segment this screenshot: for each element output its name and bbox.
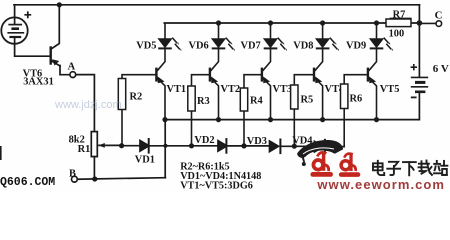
LED VD6 emission arrows	[226, 38, 235, 51]
cell plates inside circle	[7, 25, 24, 37]
node junction emitter rail at VT3	[268, 117, 273, 122]
wire VD8 anode lead	[322, 23, 324, 39]
wire to terminal C	[419, 22, 436, 24]
svg-text:R4: R4	[250, 96, 263, 107]
logo black beret swoosh	[297, 140, 343, 166]
wire node A to potentiometer	[76, 75, 95, 132]
svg-text:R3: R3	[197, 96, 210, 107]
svg-text:www.jdzj.com: www.jdzj.com	[54, 99, 122, 111]
wire mic top lead	[14, 5, 16, 24]
logo text 电子下载站 (drawn strokes)	[373, 161, 447, 176]
scan artifact left edge	[0, 146, 2, 160]
wire VT2 emitter diagonal	[211, 78, 219, 119]
wire VD7 anode lead	[270, 23, 272, 39]
svg-text:R2: R2	[130, 92, 143, 103]
node junction R2 bottom	[119, 143, 124, 148]
svg-text:3AX31: 3AX31	[23, 77, 54, 88]
svg-text:R5: R5	[301, 95, 314, 106]
LED VD9 emission arrows	[384, 38, 393, 51]
LED VD5 emission arrows	[172, 38, 181, 51]
wire mic bottom lead to VT6 base	[15, 37, 50, 56]
node junction emitter rail at VT5	[374, 117, 379, 122]
svg-text:R7: R7	[393, 9, 406, 20]
battery plus sign	[411, 64, 417, 70]
node junction R7 output	[417, 20, 423, 26]
LED VD6	[212, 39, 226, 49]
svg-text:VD3: VD3	[247, 136, 267, 147]
node junction emitter rail at VT4	[320, 117, 325, 122]
wire R6 top lead to VT5 base	[344, 75, 368, 84]
LED VD7	[264, 39, 278, 49]
battery 6V plates	[411, 77, 428, 91]
wire R4 top lead to VT3 base	[244, 75, 262, 88]
wire top rail	[14, 4, 419, 6]
transistor VT6 base bar	[50, 48, 52, 64]
wire second rail (LED anode rail)	[164, 22, 419, 24]
logo beret white slit	[303, 148, 334, 154]
wire VT5 collector	[369, 49, 377, 71]
node junction emitter rail at VT2	[216, 117, 221, 122]
wire VT5 emitter diagonal	[369, 78, 377, 119]
wire VT6 emitter to node A	[60, 66, 70, 75]
svg-text:VT1~VT5:3DG6: VT1~VT5:3DG6	[180, 180, 253, 191]
svg-text:VT1: VT1	[167, 84, 187, 95]
node junction second rail at VD9	[374, 20, 379, 25]
transistor VT3 base bar	[261, 68, 263, 82]
resistor R7	[386, 19, 411, 27]
label R7 underline	[390, 17, 412, 19]
diode VD4	[315, 140, 325, 154]
wire R2 top lead to VT1 base	[122, 75, 156, 79]
svg-text:VT2: VT2	[221, 84, 241, 95]
transistor VT1 base bar	[155, 68, 157, 82]
svg-text:B: B	[69, 169, 76, 180]
wire VT4 emitter diagonal	[315, 78, 323, 119]
wire R5 top lead to VT4 base	[294, 75, 314, 85]
LED VD8 emission arrows	[330, 38, 339, 51]
svg-text:www.eeworm.com: www.eeworm.com	[316, 177, 445, 191]
node B terminal circle	[72, 176, 78, 182]
node junction R5 bottom	[292, 144, 297, 149]
node junction potentiometer bottom	[92, 176, 97, 181]
transistor VT2 base bar	[209, 68, 211, 82]
node junction top rail / VT6 collector	[57, 2, 62, 7]
wire VT2 collector	[211, 49, 219, 71]
svg-text:VD2: VD2	[194, 135, 214, 146]
diode VD2	[218, 139, 227, 153]
wire emitter-rail to diode-line to bottom rail link	[164, 120, 166, 178]
transistor VT5 emitter arrow	[369, 76, 376, 83]
node junction second rail at VD8	[320, 20, 325, 25]
resistor R2	[118, 79, 125, 110]
LED VD8	[316, 39, 330, 49]
svg-text:R6: R6	[350, 94, 363, 105]
wire VT6 collector	[52, 5, 60, 49]
logo red bug 2	[341, 153, 358, 174]
svg-text:VD5: VD5	[136, 41, 156, 52]
svg-text:Q606.COM: Q606.COM	[0, 176, 55, 189]
transistor VT5 base bar	[367, 68, 369, 82]
potentiometer R1 body	[91, 132, 97, 157]
wire diode chain line	[120, 145, 344, 148]
node junction emitter rail at VT1	[162, 117, 167, 122]
wire potentiometer bottom	[93, 157, 95, 180]
transistor VT2 emitter arrow	[211, 76, 218, 83]
wire R3 top lead to VT2 base	[192, 75, 210, 86]
LED VD5	[158, 39, 172, 49]
resistor R5	[291, 85, 298, 109]
transistor VT4 base bar	[313, 68, 315, 82]
wire VT1 collector	[157, 49, 165, 71]
wire R6 bottom lead	[343, 109, 345, 147]
transistor VT6 emitter arrow (PNP)	[52, 59, 59, 65]
transistor VT1 emitter arrow	[158, 76, 165, 83]
node junction second rail at VD6	[216, 20, 221, 25]
wire VD5 anode lead	[164, 23, 166, 39]
svg-text:VD8: VD8	[293, 41, 313, 52]
wire bottom rail	[77, 178, 165, 180]
node junction R4 bottom	[241, 143, 246, 148]
svg-text:6 V: 6 V	[433, 63, 449, 75]
wire R5 bottom lead	[293, 109, 295, 146]
mic/cell G symbol circle	[1, 17, 27, 43]
svg-text:A: A	[68, 61, 76, 72]
svg-text:VD7: VD7	[241, 41, 261, 52]
wire R3 bottom lead	[191, 111, 193, 146]
wire VT3 collector	[263, 49, 271, 71]
resistor R6	[341, 84, 348, 109]
LED VD7 emission arrows	[278, 38, 287, 51]
svg-text:VT3: VT3	[273, 84, 293, 95]
diode VD1	[140, 139, 149, 153]
transistor VT3 emitter arrow	[263, 76, 270, 83]
svg-text:VD9: VD9	[346, 41, 366, 52]
wire right power column	[418, 5, 420, 77]
svg-text:C: C	[435, 10, 443, 22]
wire VT4 collector	[315, 49, 323, 71]
resistor R3	[188, 86, 195, 111]
wire VT3 emitter diagonal	[263, 78, 271, 119]
node A terminal circle	[70, 72, 76, 78]
svg-text:VT5: VT5	[380, 84, 400, 95]
wire VT1 emitter diagonal	[157, 78, 165, 119]
node junction diode line / B link	[164, 144, 168, 148]
svg-text:VD6: VD6	[189, 41, 209, 52]
battery minus sign	[411, 96, 417, 98]
plus sign of cell	[24, 11, 31, 18]
terminal C circle	[436, 21, 442, 27]
wire battery negative to emitter rail	[165, 92, 419, 120]
wire VD6 anode lead	[218, 23, 220, 39]
transistor VT4 emitter arrow	[315, 76, 322, 83]
logo red bug 1	[313, 152, 331, 174]
diode VD3	[270, 140, 281, 154]
svg-text:VD1: VD1	[135, 154, 155, 165]
node junction R3 bottom	[189, 143, 194, 148]
svg-text:100: 100	[389, 29, 405, 40]
wire VD9 anode lead	[376, 23, 378, 39]
wire VT6 emitter diagonal	[52, 61, 61, 66]
node junction second rail at VD7	[268, 20, 273, 25]
resistor R4	[240, 88, 247, 111]
svg-text:R1: R1	[78, 144, 91, 155]
wire R4 bottom lead	[243, 111, 245, 146]
wire R2 bottom lead	[121, 110, 123, 146]
potentiometer R1 wiper arrow	[98, 143, 120, 148]
LED VD9	[370, 39, 384, 49]
